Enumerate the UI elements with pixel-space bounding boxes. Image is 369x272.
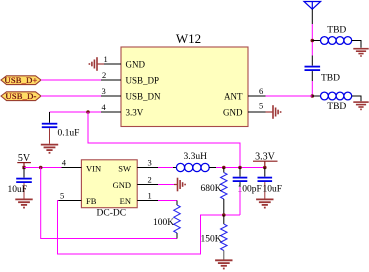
svg-text:2: 2 (148, 174, 152, 184)
svg-text:4: 4 (102, 102, 107, 112)
resistor R1 680K (221, 168, 227, 216)
svg-text:SW: SW (118, 163, 131, 173)
pin 2 (GND) of DC-DC (113, 174, 158, 190)
capacitor C5 10uF (output) (258, 168, 273, 199)
value label 3.3uH (184, 152, 208, 162)
power port 5V (17, 153, 31, 169)
antenna (304, 2, 321, 25)
pin 1 (EN) of DC-DC (120, 190, 158, 206)
svg-text:TBD: TBD (321, 74, 340, 84)
wire SW to inductor (158, 167, 173, 169)
ground below C3 (15, 199, 32, 207)
wire pin-4 node down and across to 3.3V rail (88, 112, 240, 168)
ground after L2 (353, 102, 368, 109)
svg-text:5: 5 (60, 190, 64, 200)
wire ANT pin to node B (266, 95, 313, 97)
svg-text:USB_D+: USB_D+ (5, 75, 38, 85)
svg-text:TBD: TBD (327, 26, 346, 36)
ground below C5 (256, 199, 273, 207)
inductor L1 TBD (top) (312, 37, 361, 48)
junction 5V rail (39, 166, 43, 170)
svg-text:680K: 680K (201, 184, 222, 194)
svg-text:USB_DN: USB_DN (126, 92, 162, 102)
ground at W12 pin 1 (89, 57, 104, 71)
pin 5 (FB) of DC-DC (59, 190, 97, 206)
svg-text:EN: EN (120, 196, 131, 206)
svg-text:USB_DP: USB_DP (126, 76, 160, 86)
ground below R3 (215, 260, 232, 268)
pin 6 (ANT) of W12 (224, 86, 266, 102)
pin 2 (USB_DP) of W12 (101, 70, 159, 86)
power port 3.3V (253, 152, 278, 168)
junction at pin 4 node (86, 110, 90, 114)
pin 4 (VIN) of DC-DC (62, 158, 102, 174)
pin 3 (SW) of DC-DC (118, 158, 158, 174)
value label TBD (L1) (327, 26, 346, 36)
svg-text:TBD: TBD (327, 102, 346, 112)
capacitor C3 10uF (input) (16, 168, 32, 199)
svg-text:3: 3 (102, 86, 106, 96)
pin 5 (GND) of W12 (223, 101, 266, 118)
wire USB_D- to pin 3 (41, 95, 101, 97)
junction rail at 10uF (263, 166, 267, 170)
inductor L2 TBD (bottom) (312, 92, 361, 101)
ground after L1 (353, 49, 368, 56)
svg-text:6: 6 (259, 86, 263, 96)
wire 5V to VIN (24, 167, 62, 169)
svg-text:GND: GND (113, 180, 131, 190)
svg-text:FB: FB (86, 196, 97, 206)
svg-text:10uF: 10uF (8, 185, 28, 195)
wire FB loop (58, 201, 241, 255)
value label 10uF (output) (263, 185, 283, 195)
svg-text:4: 4 (62, 158, 67, 168)
value label TBD (L2) (327, 102, 346, 112)
svg-text:100pF: 100pF (238, 185, 262, 195)
svg-text:3.3uH: 3.3uH (184, 152, 208, 162)
ground below C1 (41, 145, 58, 153)
svg-text:GND: GND (223, 108, 243, 118)
wire 3.3V to pin 4 (50, 111, 102, 113)
resistor R2 100K (174, 201, 180, 239)
capacitor C4 100pF (233, 168, 248, 188)
designator label W12 (176, 31, 201, 46)
designator label DC-DC (97, 209, 127, 219)
junction node B (311, 94, 315, 98)
ground at W12 pin 5 (266, 105, 281, 119)
svg-text:W12: W12 (176, 31, 201, 46)
wire 5V rail down to 100K (41, 168, 177, 239)
wire antenna to node A (311, 24, 313, 56)
wire 3.3V output rail (216, 167, 265, 169)
IC U2 DC-DC body (81, 160, 137, 208)
wire GND pin to ground (158, 184, 174, 186)
svg-text:VIN: VIN (86, 163, 101, 173)
junction rail at 680K (222, 166, 226, 170)
junction node A (311, 39, 315, 43)
value label 150K (201, 235, 222, 245)
value label 0.1uF (58, 129, 80, 139)
svg-text:DC-DC: DC-DC (97, 209, 127, 219)
svg-text:GND: GND (126, 60, 146, 70)
pin 4 (3.3V) of W12 (101, 102, 144, 118)
svg-text:USB_D-: USB_D- (6, 91, 37, 101)
connector USB_D+ (1, 75, 41, 85)
wire EN to 100K (158, 200, 177, 202)
ground at DC-DC pin 2 (174, 178, 185, 192)
pin 1 (GND) of W12 (101, 54, 145, 70)
IC U1 W12 body (121, 47, 248, 127)
junction rail at 100pF (238, 166, 242, 170)
svg-text:2: 2 (102, 70, 106, 80)
svg-text:3.3V: 3.3V (126, 108, 144, 118)
connector USB_D- (1, 91, 41, 101)
svg-text:10uF: 10uF (263, 185, 283, 195)
inductor L3 3.3uH (173, 163, 216, 171)
svg-text:0.1uF: 0.1uF (58, 129, 80, 139)
svg-text:1: 1 (104, 54, 108, 64)
value label TBD (C2) (321, 74, 340, 84)
value label 680K (201, 184, 222, 194)
capacitor C1 0.1uF (42, 112, 58, 144)
junction FB node (222, 213, 226, 217)
capacitor C2 TBD (antenna series) (305, 56, 321, 82)
svg-text:ANT: ANT (224, 92, 243, 102)
value label 100pF (238, 185, 262, 195)
svg-text:100K: 100K (153, 218, 174, 228)
resistor R3 150K (221, 215, 227, 260)
svg-text:1: 1 (148, 190, 152, 200)
wire 100pF to FB node (239, 187, 241, 215)
wire USB_D+ to pin 2 (41, 79, 101, 81)
svg-text:3: 3 (148, 158, 152, 168)
value label 10uF (input) (8, 185, 28, 195)
value label 100K (153, 218, 174, 228)
svg-text:5: 5 (259, 101, 263, 111)
wire C2 to node B (311, 81, 313, 96)
pin 3 (USB_DN) of W12 (101, 86, 161, 102)
svg-text:150K: 150K (201, 235, 222, 245)
